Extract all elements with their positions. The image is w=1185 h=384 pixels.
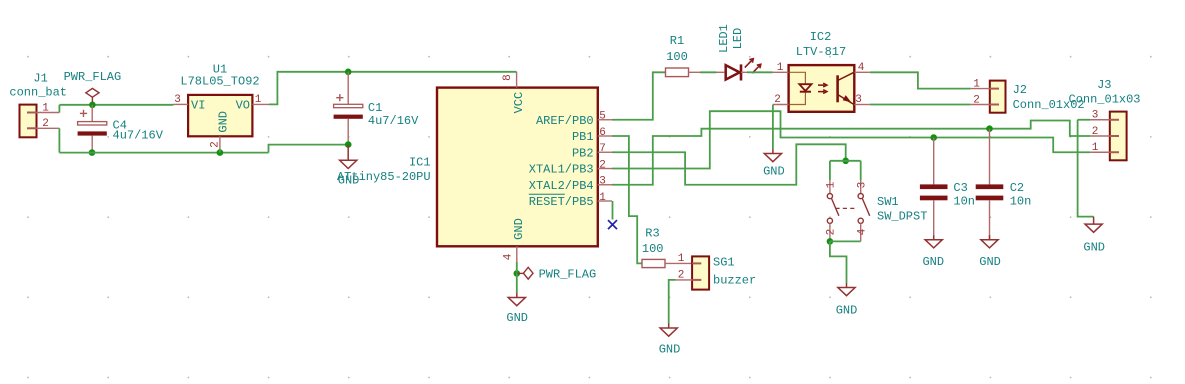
J2 value label Conn_01x02	[1013, 98, 1085, 112]
IC1 pin 4 (GND)	[516, 246, 518, 262]
regulator U1 body	[188, 95, 252, 136]
svg-text:1: 1	[42, 102, 49, 114]
svg-text:1: 1	[777, 62, 784, 74]
svg-text:3: 3	[856, 182, 868, 189]
J3 pin 2	[1090, 135, 1109, 137]
capacitor C4 plus sign	[80, 110, 87, 117]
svg-text:5: 5	[599, 111, 606, 123]
svg-text:RESET/PB5: RESET/PB5	[529, 195, 594, 209]
svg-text:3: 3	[855, 94, 862, 106]
R3 value label	[642, 242, 664, 256]
svg-text:GND: GND	[659, 342, 681, 356]
power flag PWR_FLAG (battery +)	[86, 88, 99, 104]
J3 value label Conn_01x03	[1069, 93, 1141, 107]
C1 value label	[368, 114, 419, 128]
junction C3 on PB3 net	[930, 134, 937, 141]
svg-text:GND: GND	[922, 255, 944, 269]
svg-text:conn_bat: conn_bat	[9, 85, 67, 99]
IC2 pin 2	[773, 104, 789, 106]
IC2 reference label	[810, 30, 832, 44]
U1 reference label	[213, 63, 227, 77]
C4 value label	[113, 129, 164, 143]
svg-text:C3: C3	[953, 181, 967, 195]
connector J2 body	[990, 81, 1006, 113]
ground symbol below J3	[1083, 217, 1105, 255]
wire SG1.2 to GND	[669, 280, 676, 324]
IC2 pin 4	[854, 71, 870, 73]
IC2 pin 4 number	[858, 62, 865, 74]
wire J1.1 riser	[58, 105, 60, 113]
IC2 internal LED	[790, 72, 812, 104]
SG1 pin numbers	[678, 253, 685, 282]
R1 value label	[666, 50, 688, 64]
svg-text:4: 4	[858, 62, 865, 74]
capacitor C1 plus sign	[336, 94, 343, 101]
IC2 pin 1 number	[777, 62, 784, 74]
svg-text:10n: 10n	[953, 194, 975, 208]
IC1 pin name PB2	[572, 146, 594, 160]
wire U1.1 to +5V row	[269, 72, 517, 105]
svg-text:2: 2	[42, 118, 49, 130]
svg-text:VI: VI	[191, 98, 205, 112]
IC1 pin 8 (VCC)	[516, 72, 518, 88]
IC1 pin 5 number	[599, 111, 606, 123]
U1 pin name VO	[236, 98, 250, 112]
ground symbol below C1	[338, 145, 360, 188]
junction U1 GND pin	[217, 149, 224, 156]
svg-text:SG1: SG1	[713, 255, 735, 269]
ground symbol below SW1	[836, 283, 858, 318]
svg-text:PWR_FLAG: PWR_FLAG	[64, 70, 122, 84]
IC2 value label LTV-817	[796, 45, 846, 59]
junction C4/GND row	[89, 149, 96, 156]
IC1 pin 1 number	[599, 192, 606, 204]
IC1 pin 8 number	[502, 74, 514, 81]
SW1 mechanical link	[835, 207, 855, 209]
J1 pin 2	[37, 127, 60, 129]
svg-text:8: 8	[502, 74, 514, 81]
svg-text:3: 3	[599, 176, 606, 188]
svg-text:Conn_01x03: Conn_01x03	[1069, 93, 1141, 107]
capacitor C2	[976, 129, 1004, 240]
wire SW1 top link	[830, 160, 861, 162]
svg-text:J3: J3	[1097, 78, 1111, 92]
SG1 value label buzzer	[713, 273, 756, 287]
wire PB4 net	[612, 121, 1090, 185]
svg-text:10n: 10n	[1010, 194, 1032, 208]
svg-text:2: 2	[774, 94, 781, 106]
J3 pin numbers	[1092, 110, 1099, 155]
IC2 pin 1	[773, 71, 789, 73]
svg-text:100: 100	[642, 242, 664, 256]
C2 value label	[1010, 194, 1032, 208]
svg-text:SW_DPST: SW_DPST	[877, 209, 927, 223]
svg-text:AREF/PB0: AREF/PB0	[536, 114, 594, 128]
J2 reference label	[1013, 83, 1027, 97]
U1 pin name GND (rotated)	[217, 111, 231, 133]
svg-text:C2: C2	[1010, 181, 1024, 195]
J2 pin numbers	[973, 78, 980, 106]
IC1 pin name PB1	[572, 130, 594, 144]
SG1 reference label	[713, 255, 735, 269]
svg-text:XTAL1/PB3: XTAL1/PB3	[529, 163, 594, 177]
U1 pin 3 (VI)	[174, 103, 189, 105]
J2 pin 1	[970, 88, 989, 90]
microcontroller IC1 body	[437, 88, 598, 247]
wire R1 to LED1	[700, 71, 717, 73]
IC1 reference label	[409, 156, 431, 170]
switch SW1 pole 1	[827, 161, 839, 242]
wire PB1 to R3	[612, 136, 642, 263]
IC1 value label ATtiny85-20PU	[337, 170, 431, 184]
capacitor C3	[920, 138, 948, 240]
svg-text:1: 1	[973, 78, 980, 90]
svg-text:1: 1	[826, 181, 838, 188]
svg-text:7: 7	[599, 143, 606, 155]
wire GND row left	[59, 152, 268, 154]
IC1 pin 1 (RESET/PB5)	[598, 200, 612, 202]
svg-text:R1: R1	[670, 34, 684, 48]
svg-text:GND: GND	[512, 218, 526, 240]
IC1 pin name XTAL2/PB4	[529, 179, 594, 193]
resistor R3	[642, 259, 692, 267]
J3 pin 3	[1090, 119, 1109, 121]
ground symbol below IC2.2	[763, 149, 785, 178]
power flag PWR_FLAG (gnd)	[517, 267, 533, 279]
svg-text:GND: GND	[506, 311, 528, 325]
J1 pin 1	[37, 112, 60, 114]
svg-text:3: 3	[174, 94, 181, 106]
IC1 pin name RESET/PB5	[529, 194, 594, 209]
IC1 pin name AREF/PB0	[536, 114, 594, 128]
svg-text:1: 1	[255, 94, 262, 106]
IC1 pin 2 (XTAL1/PB3)	[598, 168, 612, 170]
junction C2 on PB4 net	[986, 125, 993, 132]
wire PB0 to R1	[612, 72, 666, 119]
svg-text:LED: LED	[731, 28, 745, 50]
svg-text:6: 6	[599, 127, 606, 139]
wire LED1 to IC2.1	[747, 71, 773, 73]
IC1 pin 6 (PB1)	[598, 135, 612, 137]
resistor R1	[666, 68, 701, 77]
optocoupler IC2 body	[789, 65, 855, 112]
svg-text:L78L05_TO92: L78L05_TO92	[180, 75, 259, 89]
PWR_FLAG 2 label	[539, 268, 597, 282]
IC1 pin name GND (rotated)	[512, 218, 526, 240]
svg-text:1: 1	[599, 192, 606, 204]
wire RESET stub	[612, 201, 614, 220]
IC1 pin 7 (PB2)	[598, 151, 612, 153]
U1 pin numbers	[174, 94, 262, 148]
junction SW1 bottom	[827, 238, 834, 245]
IC1 pin 2 number	[599, 159, 606, 171]
IC2 phototransistor	[838, 72, 854, 104]
svg-text:J2: J2	[1013, 83, 1027, 97]
wire IC2.3 to J2.2	[870, 104, 971, 106]
J1 value label conn_bat	[9, 85, 67, 99]
junction C1 bottom	[345, 141, 352, 148]
svg-text:VCC: VCC	[512, 92, 526, 114]
SW1 value label SW_DPST	[877, 209, 927, 223]
svg-text:100: 100	[666, 50, 688, 64]
ground symbol below C2	[979, 235, 1001, 269]
svg-text:GND: GND	[763, 164, 785, 178]
IC1 pin 6 number	[599, 127, 606, 139]
svg-text:2: 2	[599, 159, 606, 171]
J1 pin numbers	[42, 102, 49, 130]
svg-text:GND: GND	[979, 255, 1001, 269]
C3 reference label	[953, 181, 967, 195]
C1 reference label	[368, 101, 382, 115]
wire J1.2 riser	[58, 128, 60, 152]
IC1 pin name XTAL1/PB3	[529, 163, 594, 177]
SW1 reference label	[877, 195, 899, 209]
svg-text:LTV-817: LTV-817	[796, 45, 846, 59]
junction SW1 top	[842, 158, 849, 165]
svg-text:2: 2	[826, 229, 838, 236]
svg-text:2: 2	[973, 94, 980, 106]
ground symbol below C3	[922, 235, 944, 269]
LED1 diode	[717, 59, 761, 81]
svg-text:4u7/16V: 4u7/16V	[113, 129, 164, 143]
J3 reference label	[1097, 78, 1111, 92]
wire U1.2 to GND row	[219, 149, 221, 153]
ground symbol below IC1	[506, 293, 528, 325]
svg-text:GND: GND	[1083, 240, 1105, 254]
svg-text:R3: R3	[645, 227, 659, 241]
wire IC2.2 to GND	[772, 105, 774, 150]
J2 pin 2	[970, 104, 989, 106]
svg-text:4: 4	[502, 253, 514, 260]
J3 pin 1	[1090, 151, 1109, 153]
svg-text:SW1: SW1	[877, 195, 899, 209]
svg-text:VO: VO	[236, 98, 250, 112]
wire J3.3 to GND	[1078, 120, 1094, 217]
IC2 coupling arrows	[818, 83, 827, 93]
svg-text:GND: GND	[836, 304, 858, 318]
C2 reference label	[1010, 181, 1024, 195]
svg-text:IC2: IC2	[810, 30, 832, 44]
SG1 pin 2	[676, 279, 692, 281]
svg-text:PWR_FLAG: PWR_FLAG	[539, 268, 597, 282]
svg-text:4u7/16V: 4u7/16V	[368, 114, 419, 128]
LED1 reference label (rotated)	[717, 24, 731, 53]
wire PB2 net	[612, 144, 846, 184]
buzzer SG1 body	[692, 256, 709, 289]
IC1 pin 7 number	[599, 143, 606, 155]
wire +BATT row	[59, 104, 173, 106]
junction PWR_FLAG/C4 on +BATT row	[89, 102, 96, 109]
U1 value label	[180, 75, 259, 89]
svg-text:2: 2	[210, 141, 222, 148]
wire IC1.4 to GND	[516, 273, 518, 293]
capacitor C1	[334, 72, 363, 145]
wire SW1 to GND	[830, 241, 847, 283]
U1 pin name VI	[191, 98, 205, 112]
switch SW1 pole 2	[858, 161, 870, 242]
IC2 pin 3	[854, 104, 870, 106]
svg-text:ATtiny85-20PU: ATtiny85-20PU	[337, 170, 431, 184]
wire IC2.4 to J2.1	[870, 72, 971, 88]
grid dots (decorative)	[27, 56, 1152, 379]
svg-text:2: 2	[678, 269, 685, 281]
LED1 value label (rotated)	[731, 28, 745, 50]
wire SW1 bottom link	[830, 240, 861, 242]
SW1 pin numbers	[826, 181, 869, 235]
wire PB3 net	[612, 111, 1090, 168]
IC1 pin name VCC (rotated)	[512, 92, 526, 114]
svg-text:LED1: LED1	[717, 24, 731, 53]
junction C1 top	[345, 69, 352, 76]
IC1 pin 3 (XTAL2/PB4)	[598, 184, 612, 186]
IC2 pin 2 number	[774, 94, 781, 106]
svg-text:J1: J1	[33, 71, 47, 85]
IC1 pin 3 number	[599, 176, 606, 188]
svg-text:PB2: PB2	[572, 146, 594, 160]
R3 reference label	[645, 227, 659, 241]
PWR_FLAG 1 label	[64, 70, 122, 84]
IC1 pin 4 number	[502, 253, 514, 260]
svg-text:4: 4	[856, 228, 868, 235]
wire GND row step	[269, 145, 349, 153]
U1 pin 2 (GND)	[219, 136, 221, 149]
J1 reference label	[33, 71, 47, 85]
connector J3 body	[1110, 112, 1127, 161]
ground symbol below SG1	[659, 324, 681, 357]
no-connect flag on RESET	[608, 220, 617, 229]
R1 reference label	[670, 34, 684, 48]
svg-text:GND: GND	[217, 111, 231, 133]
svg-text:XTAL2/PB4: XTAL2/PB4	[529, 179, 594, 193]
junction IC1 GND pin	[514, 270, 521, 277]
U1 pin 1 (VO)	[252, 103, 269, 105]
IC1 pin 5 (AREF/PB0)	[598, 119, 612, 121]
capacitor C4	[78, 105, 107, 153]
svg-text:1: 1	[678, 253, 685, 265]
svg-text:buzzer: buzzer	[713, 273, 756, 287]
svg-text:2: 2	[1092, 126, 1099, 138]
IC2 pin 3 number	[855, 94, 862, 106]
wire IC1.4 to junction	[516, 262, 518, 273]
svg-text:3: 3	[1092, 110, 1099, 122]
C4 reference label	[113, 119, 127, 133]
svg-text:IC1: IC1	[409, 156, 431, 170]
connector J1 body	[20, 105, 37, 138]
svg-text:1: 1	[1092, 142, 1099, 154]
svg-text:PB1: PB1	[572, 130, 594, 144]
C3 value label	[953, 194, 975, 208]
